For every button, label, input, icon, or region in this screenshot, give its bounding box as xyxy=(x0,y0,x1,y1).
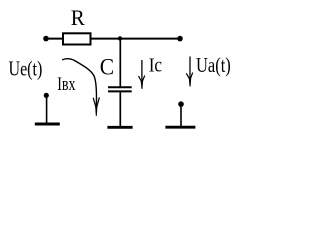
wire capacitor bottom lead xyxy=(119,92,121,126)
ground bar under capacitor xyxy=(107,126,132,129)
node output lower terminal dot xyxy=(178,101,184,107)
wire output lower stem xyxy=(180,106,182,126)
capacitor C bottom plate xyxy=(108,90,132,92)
resistor R xyxy=(63,33,91,44)
arrow Ua xyxy=(189,57,191,80)
node junction dot at capacitor top xyxy=(118,36,122,40)
wire top rail right segment xyxy=(90,38,180,40)
svg-text:Ue(t): Ue(t) xyxy=(9,56,43,80)
capacitor C top plate xyxy=(108,86,132,88)
svg-text:Ic: Ic xyxy=(149,54,162,76)
svg-text:Ua(t): Ua(t) xyxy=(196,53,231,77)
ground bar left xyxy=(35,123,60,126)
wire capacitor top lead xyxy=(119,39,121,87)
ground bar right xyxy=(165,126,195,129)
arrow Ic xyxy=(141,60,143,82)
wire input lower stem xyxy=(46,97,48,123)
svg-text:C: C xyxy=(100,55,114,80)
svg-text:Iвх: Iвх xyxy=(57,74,76,95)
wire top rail left segment xyxy=(46,38,64,40)
node output terminal dot xyxy=(177,36,183,42)
svg-text:R: R xyxy=(71,5,85,30)
node input lower terminal dot xyxy=(44,93,49,98)
node input terminal dot xyxy=(43,36,49,42)
curved arrow input current xyxy=(62,59,96,107)
